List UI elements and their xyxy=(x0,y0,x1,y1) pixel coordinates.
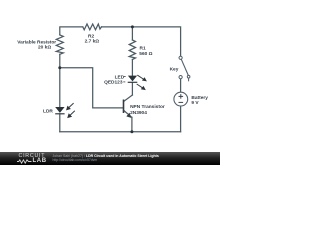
resistor R1 xyxy=(129,40,135,60)
wire top rail right xyxy=(102,27,181,56)
CircuitLab logo CIRCUIT xyxy=(19,153,46,159)
wire bottom rail xyxy=(60,131,181,133)
resistor R2 xyxy=(83,24,102,30)
svg-text:QED123: QED123 xyxy=(104,80,123,86)
battery minus sign xyxy=(179,101,184,103)
LED QED123 triangle xyxy=(128,76,137,82)
footer bar xyxy=(0,152,220,165)
battery plus sign xyxy=(179,94,184,99)
wire junction to R1 xyxy=(131,27,133,40)
LDR cathode bar xyxy=(55,113,64,115)
wire R1 to LED xyxy=(131,60,133,76)
label QED123 leader dash xyxy=(123,81,125,83)
wire left rail bottom xyxy=(59,114,61,132)
wire switch to battery xyxy=(180,79,182,93)
switch Key blade xyxy=(181,59,188,75)
wire left rail mid xyxy=(59,54,61,107)
svg-text:20 kΩ: 20 kΩ xyxy=(38,45,51,51)
wire LED to collector xyxy=(131,83,133,95)
LED QED123 cathode bar xyxy=(128,81,138,83)
transistor Q1 collector diagonal xyxy=(124,95,133,101)
footer text line 1 xyxy=(53,154,159,158)
LDR triangle xyxy=(55,107,64,113)
wire base branch xyxy=(60,68,124,108)
svg-text:NPN Transistor: NPN Transistor xyxy=(130,104,165,110)
LED light arrow 1 xyxy=(137,75,147,81)
label LED leader dash xyxy=(124,75,126,77)
switch Key blade end tick xyxy=(188,78,190,81)
transistor Q1 base bar xyxy=(123,100,125,114)
node junction top xyxy=(131,25,134,28)
svg-text:Variable Resistor: Variable Resistor xyxy=(17,39,56,45)
switch Key blade end circle xyxy=(187,75,190,78)
svg-text:Battery: Battery xyxy=(191,95,208,101)
svg-text:R2: R2 xyxy=(88,34,94,40)
LED light arrow 2 xyxy=(137,84,146,90)
svg-text:2.7 kΩ: 2.7 kΩ xyxy=(85,39,100,45)
transistor Q1 emitter diagonal xyxy=(124,110,132,117)
LDR light arrow 2 xyxy=(67,111,75,118)
svg-text:Key: Key xyxy=(170,67,179,73)
node junction bottom xyxy=(130,130,133,133)
footer text line 2 xyxy=(53,158,98,162)
transistor Q1 emitter arrowhead xyxy=(126,113,131,118)
CircuitLab logo LAB xyxy=(33,158,47,164)
switch Key bottom terminal xyxy=(179,76,182,79)
switch Key top terminal xyxy=(179,56,182,59)
battery V1 circle xyxy=(174,92,188,106)
LDR light arrow 1 xyxy=(66,103,74,110)
svg-text:2N3904: 2N3904 xyxy=(130,110,147,116)
svg-text:560 Ω: 560 Ω xyxy=(139,51,152,57)
wire top rail left xyxy=(60,27,83,35)
svg-text:LDR: LDR xyxy=(43,108,53,114)
svg-text:9 V: 9 V xyxy=(191,100,199,106)
wire battery to bottom rail xyxy=(180,106,182,132)
wire emitter vertical xyxy=(131,117,133,131)
CircuitLab logo zigzag xyxy=(17,159,32,164)
node junction left xyxy=(58,66,61,69)
svg-text:R1: R1 xyxy=(140,45,146,51)
variable resistor VR zigzag xyxy=(56,35,63,54)
